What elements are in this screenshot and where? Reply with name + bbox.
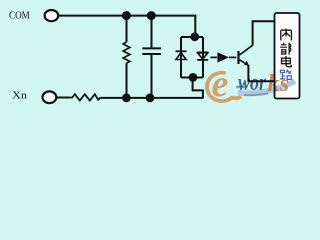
wire Xn to resistor	[56, 97, 70, 99]
diode D2 (right, pointing down) anode top bar	[197, 51, 208, 53]
diode D1 (left, pointing up) cathode bar	[176, 50, 187, 52]
watermark swoosh dark under-edge	[244, 94, 268, 96]
junction dot top rail at R2	[122, 11, 131, 20]
wire collector riser	[252, 21, 254, 45]
label 部 (box text char 2)	[280, 43, 291, 55]
label 内 (box text char 1)	[281, 29, 292, 41]
junction dot loop bottom	[189, 73, 198, 82]
diode loop left branch wire	[180, 37, 182, 78]
junction dot bottom rail at R2	[122, 94, 131, 103]
wire stub from top rail down to diode loop	[194, 16, 196, 37]
label 电 (box text char 3)	[282, 56, 292, 67]
label 路 (box text char 4, blue tint from watermark)	[280, 70, 291, 80]
svg-text:ks: ks	[268, 71, 290, 97]
terminal Xn	[43, 91, 57, 103]
diode D2 triangle	[198, 53, 208, 59]
wire collector to box	[252, 20, 275, 22]
transistor Q1 emitter arrowhead	[244, 61, 249, 66]
svg-text:wor: wor	[238, 70, 266, 96]
box U1 internal-circuit border	[275, 13, 300, 99]
svg-text:Xn: Xn	[12, 90, 28, 102]
resistor R2 (vertical) lead top	[126, 16, 128, 42]
junction dot top rail at C1	[147, 11, 156, 20]
light arrow line right	[229, 56, 236, 58]
box U1 internal-circuit fill	[275, 13, 300, 99]
wire bottom rail resistor to corner	[100, 97, 203, 99]
diode loop top wire	[181, 36, 203, 38]
transistor Q1 emitter diagonal	[240, 60, 249, 65]
svg-text:e: e	[212, 63, 229, 105]
transistor Q1 base bar	[237, 51, 239, 64]
wire emitter drop	[247, 65, 249, 81]
light arrow head	[217, 52, 229, 62]
wire emitter to box	[248, 80, 275, 82]
diode loop bottom wire	[181, 77, 203, 79]
capacitor C1 bottom plate	[142, 53, 161, 55]
junction dot loop top	[190, 32, 199, 41]
resistor R1 (horizontal)	[70, 94, 101, 100]
resistor R2 lead bottom	[126, 63, 128, 98]
transistor Q1 collector diagonal	[240, 45, 253, 55]
diode loop right branch wire	[202, 37, 204, 78]
resistor R2 (vertical) zigzag	[123, 42, 130, 63]
svg-text:COM: COM	[9, 9, 30, 21]
terminal COM	[45, 10, 59, 21]
wire bottom-rail corner up to loop jog	[193, 78, 203, 98]
diode D2 cathode bar	[197, 59, 208, 61]
capacitor C1 lead bottom	[151, 55, 153, 98]
wire top rail COM to corner	[58, 15, 196, 17]
diode D1 triangle	[176, 53, 186, 60]
junction dot bottom rail at C1	[146, 94, 155, 103]
watermark swoosh (pale blue arc)	[238, 81, 295, 93]
watermark e ring (tan open circle)	[207, 73, 240, 101]
watermark hyphen	[236, 86, 244, 89]
light arrow line left	[210, 56, 217, 58]
capacitor C1 top plate	[142, 47, 161, 49]
capacitor C1 lead top	[151, 16, 153, 48]
